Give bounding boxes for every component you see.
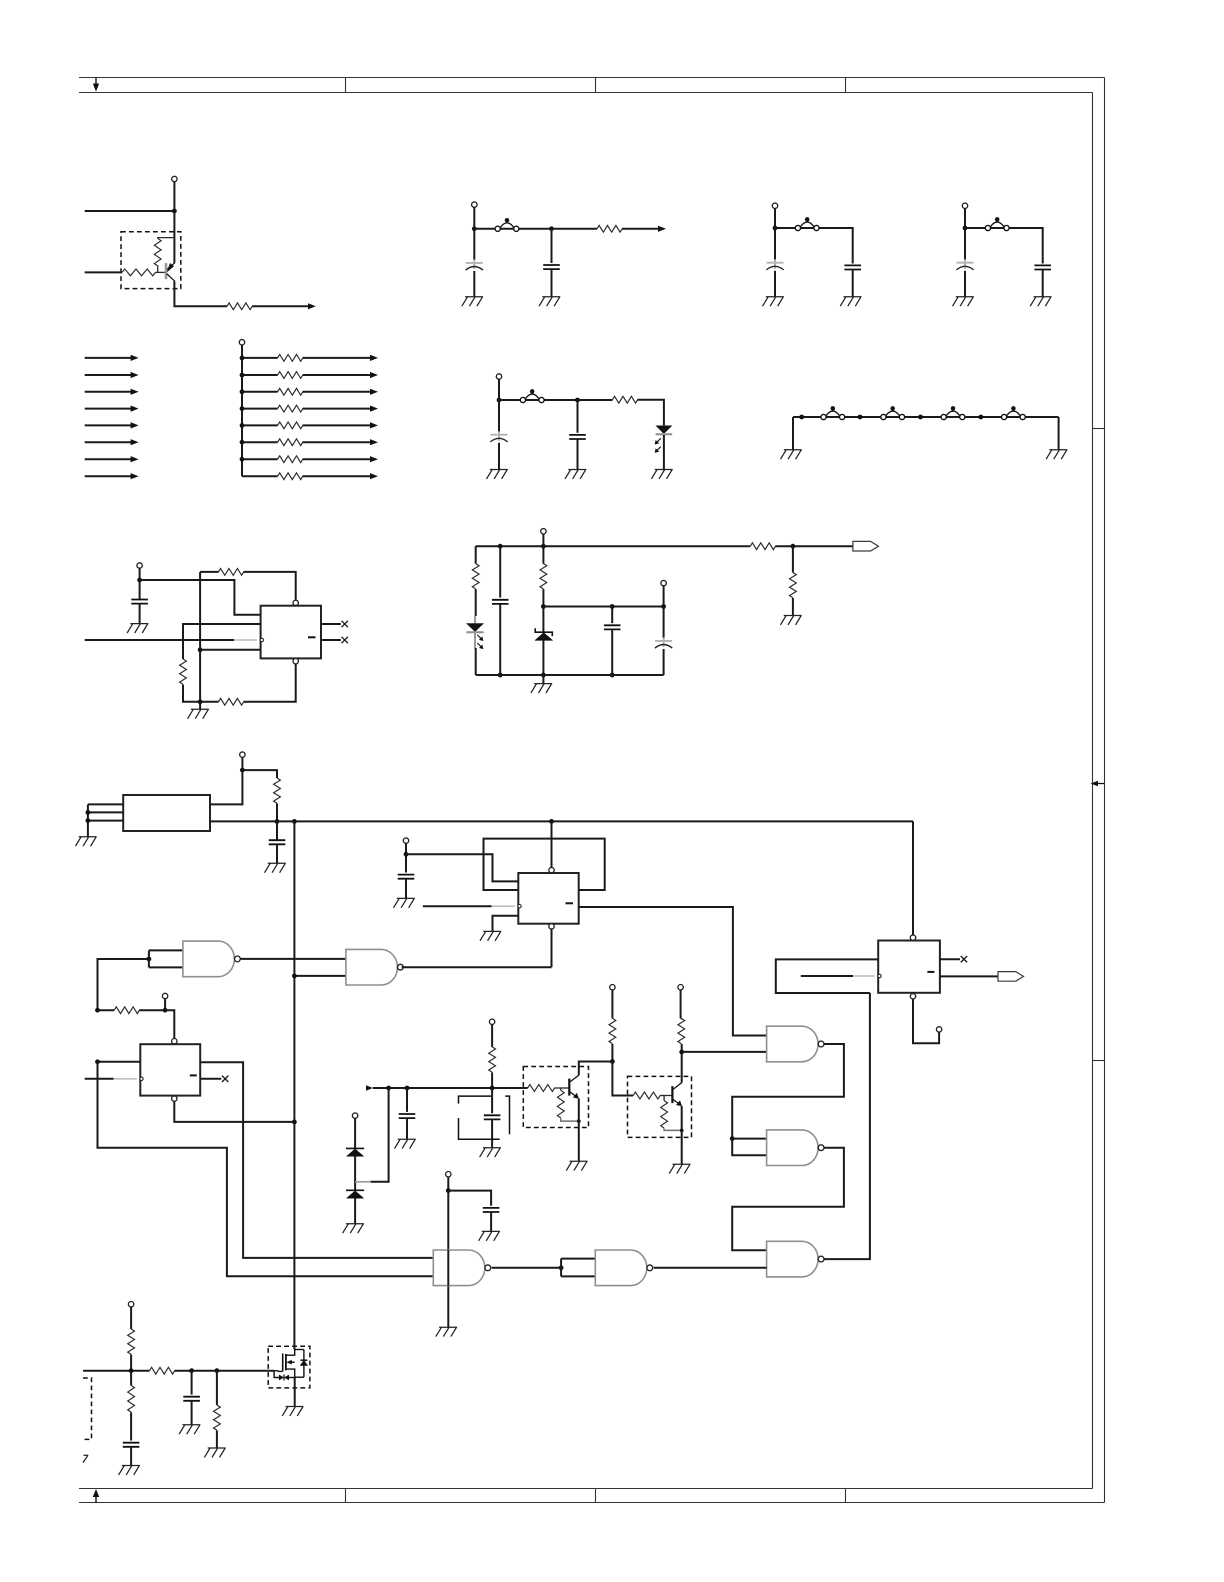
ground Q2 emitter bbox=[566, 1161, 587, 1170]
NAND A2 output wire to IC2 bottom bbox=[402, 966, 552, 968]
LED branch: resistor wire from rail bbox=[475, 546, 477, 563]
wire feedback top to IC1 top pin bbox=[244, 572, 296, 600]
supply rail through gate G1 bbox=[447, 1191, 449, 1327]
IC2 top pin wire to clock rail bbox=[551, 821, 553, 867]
fan tap 5 bbox=[240, 423, 245, 428]
node dot clock pullup bbox=[275, 819, 280, 824]
filter1 electrolytic cap wire bbox=[473, 229, 475, 260]
IC3 left pin1 wire bbox=[98, 1061, 141, 1063]
fan tap 7 bbox=[240, 457, 245, 462]
IC4 pin2 floating input wire bbox=[801, 975, 853, 977]
filter1 wire resistor to arrow bbox=[622, 228, 659, 230]
node dot bottom rail zener bbox=[541, 673, 546, 678]
IC4 minus mark bbox=[927, 971, 934, 973]
NAND gate G2 (bottom pair right) bbox=[595, 1250, 652, 1286]
LED D2 (triangle + bar) bbox=[466, 616, 483, 649]
resistor MOSFET pull-down bbox=[128, 1385, 135, 1412]
Q3 collector wire up bbox=[681, 1052, 683, 1083]
LED D1 emission arrows bbox=[655, 438, 661, 453]
resistor zener branch bbox=[540, 564, 547, 589]
transistor Q2 emitter diagonal with arrow bbox=[570, 1092, 576, 1097]
filter2 node dot bbox=[773, 226, 778, 231]
IC2 bias terminal bbox=[403, 838, 408, 843]
Q2 pull-up wire bbox=[611, 990, 613, 1019]
IC1 right pin2 wire bbox=[321, 639, 341, 641]
node dot zener top bbox=[541, 604, 546, 609]
resistor IC1 left divider bbox=[180, 659, 187, 684]
filter2 wire across and corner down bbox=[775, 228, 853, 264]
LED D1 cathode wire to ground bbox=[663, 435, 665, 469]
filter3 wire across and corner down bbox=[965, 228, 1043, 264]
filter3 ferrite bead bbox=[985, 217, 1009, 230]
filter3 node dot bbox=[963, 226, 968, 231]
filter1 node dot bbox=[472, 226, 477, 231]
wire left input to node bbox=[85, 210, 175, 212]
node dot clock branch MOSFET rail bbox=[292, 819, 297, 824]
NAND A1 output wire bbox=[240, 958, 346, 960]
zener branch: resistor wire bbox=[542, 546, 544, 563]
border tick bottom 2 bbox=[595, 1489, 597, 1503]
resonator bracket left-top bbox=[459, 1096, 492, 1104]
node dot rail IC3 top bbox=[95, 1008, 100, 1013]
node dot at transistor supply bbox=[172, 209, 177, 214]
IC1 left pin3 wire bbox=[200, 649, 261, 651]
pull-down branch below bbox=[130, 1371, 132, 1386]
IC2 minus mark bbox=[566, 902, 574, 904]
dashed box transistor Q2 bbox=[523, 1067, 588, 1128]
IC2 bottom pin circle bbox=[549, 924, 554, 929]
ground zener bbox=[531, 684, 552, 693]
ferrite bead chain 1 bbox=[821, 406, 845, 419]
filter1 output arrowhead bbox=[658, 226, 666, 232]
bead chain node dot 1 bbox=[799, 415, 804, 420]
ferrite bead chain 2 bbox=[881, 406, 905, 419]
IC1 pin2 input bubble bbox=[260, 638, 263, 641]
MOSFET M1 gate entry wire bbox=[274, 1370, 283, 1373]
osc load cap wire bbox=[276, 821, 278, 840]
output ecap wire to bottom rail bbox=[663, 649, 665, 675]
BORDER_SECTION bbox=[79, 78, 1105, 1503]
Q3 emitter wire to ground bbox=[681, 1106, 683, 1164]
capacitor electrolytic LED filter bbox=[490, 431, 507, 442]
wire resistor to output arrow bbox=[252, 305, 310, 307]
IC1 left vertical rail bbox=[199, 572, 201, 709]
no-connect X IC4 right pin1 bbox=[961, 956, 967, 962]
wire node down to transistor emitter bbox=[173, 211, 175, 263]
LED filter wire terminal down bbox=[498, 379, 500, 400]
IC3 pull-up terminal bbox=[162, 993, 167, 998]
resistor IC1 feedback bottom bbox=[219, 698, 244, 705]
node dot Q3 collector bbox=[679, 1050, 684, 1055]
capacitor IC1 decoupling bbox=[131, 600, 148, 604]
wire node right and down to resistor bbox=[242, 770, 277, 778]
zener diode Z1 bbox=[535, 607, 553, 676]
IC3 pin2 input bubble bbox=[140, 1077, 143, 1080]
no-connect X IC3 right pin2 bbox=[222, 1076, 228, 1082]
filter1 ecap to ground wire bbox=[473, 271, 475, 297]
input arrow 6 bbox=[85, 441, 132, 443]
NAND gate B (right column middle) bbox=[767, 1130, 824, 1166]
ground oscillator bbox=[75, 837, 96, 846]
filter3: terminal bbox=[962, 203, 967, 208]
wire left input to base resistor bbox=[85, 271, 122, 273]
wire resistor to divider rail bbox=[491, 1072, 493, 1088]
LED filter cap ground wire bbox=[577, 439, 579, 469]
bus of 8 input arrows bbox=[85, 355, 139, 480]
resistor IC1 feedback top bbox=[219, 569, 244, 576]
capacitor ceramic filter1 bbox=[543, 265, 560, 269]
wire fan bus vertical bbox=[241, 345, 243, 476]
IC4 top pin wire to clock rail bbox=[912, 821, 914, 935]
capacitor ceramic filter2 bbox=[844, 265, 861, 269]
osc cap ground wire bbox=[276, 844, 278, 863]
border arrow right-middle (left) bbox=[1091, 781, 1105, 787]
filter1 wire terminal down bbox=[473, 207, 475, 229]
bead chain node dot 4 bbox=[978, 415, 983, 420]
resistor IC3 pull-up bbox=[114, 1007, 139, 1014]
IC3 top pin circle bbox=[172, 1039, 177, 1044]
filter1 ferrite bead bbox=[495, 218, 519, 231]
resistor MOSFET pull-up bbox=[128, 1329, 135, 1354]
resistor gate series bbox=[150, 1367, 175, 1374]
IC1 left pin2 long input wire bbox=[85, 639, 234, 641]
capacitor regulator input bbox=[492, 600, 509, 604]
gate C output wire up to IC4 loop bbox=[824, 993, 870, 1259]
IC4 pin2 input bubble bbox=[878, 974, 881, 977]
IC2 bias cap wire bbox=[405, 854, 407, 872]
output terminal wire down bbox=[663, 586, 665, 607]
LED D1 (triangle + bar) bbox=[656, 426, 673, 437]
resistor osc pull-up bbox=[274, 778, 281, 803]
ground divider cap bbox=[395, 1139, 416, 1148]
bottom NAND supply terminal bbox=[446, 1172, 451, 1177]
IC3 bottom pin circle bbox=[172, 1096, 177, 1101]
input arrow 8 bbox=[85, 475, 132, 477]
terminal (top-left transistor supply) bbox=[172, 176, 177, 181]
fan tap 2 bbox=[240, 373, 245, 378]
wire divider bottom to rail bbox=[183, 685, 200, 702]
IC4 top pin circle bbox=[910, 935, 915, 940]
ground gate bleed bbox=[204, 1448, 225, 1457]
oscillator output long rail bbox=[210, 820, 913, 822]
NAND gate G1 (bottom pair left) bbox=[433, 1250, 490, 1286]
wire rail to resistor bbox=[98, 1009, 115, 1011]
node dot bottom rail output cap bbox=[610, 673, 615, 678]
IC1 supply terminal bbox=[137, 563, 142, 568]
bead chain node dot 2 bbox=[858, 415, 863, 420]
transistor Q2 collector diagonal bbox=[570, 1075, 579, 1082]
input arrow 5 bbox=[85, 424, 132, 426]
IC2 pin3 gray segment bbox=[492, 905, 515, 907]
divider input arrowhead bbox=[366, 1085, 373, 1090]
wire pull-up to collector node bbox=[681, 1044, 683, 1052]
ground sense bbox=[780, 616, 801, 625]
node dot output rail cap bbox=[610, 604, 615, 609]
node dot rail IC3 pin1 bbox=[95, 1059, 100, 1064]
IC4 right pin2 wire to flag bbox=[940, 975, 998, 977]
dashed box transistor Q3 bbox=[628, 1076, 692, 1137]
capacitor electrolytic filter3 bbox=[956, 259, 973, 270]
node dot osc pin2 bbox=[86, 810, 91, 815]
bleed resistor wire bbox=[216, 1371, 218, 1405]
border tick bottom 1 bbox=[345, 1489, 347, 1503]
output electrolytic wire bbox=[663, 607, 665, 639]
IC1 pin2 gray segment bbox=[234, 639, 257, 641]
IC3 left pin2 long input wire bbox=[85, 1078, 114, 1080]
IC2 pin3 input wire bbox=[423, 905, 492, 907]
node dot gate rail pull-up bbox=[129, 1368, 134, 1373]
gate B output wire loop to gate C bbox=[732, 1148, 844, 1251]
filter2 ferrite bead bbox=[795, 217, 819, 230]
IC1 supply wire down bbox=[139, 568, 141, 580]
LED filter: terminal bbox=[496, 374, 501, 379]
LED filter wire resistor to LED corner bbox=[638, 400, 664, 426]
signal flag output 2 bbox=[998, 972, 1024, 982]
supply wire down bbox=[447, 1177, 449, 1191]
border top inner line bbox=[79, 92, 1093, 94]
clamp diode D4 lower bbox=[346, 1190, 364, 1223]
filter3 wire terminal down bbox=[964, 209, 966, 229]
resistor Q2 base bbox=[528, 1085, 555, 1092]
capacitor bottom NAND decoupling bbox=[483, 1208, 500, 1212]
IC2 top pin circle bbox=[549, 867, 554, 872]
diode branch wire down-left bbox=[370, 1088, 389, 1182]
resistor sense pulldown bbox=[790, 573, 797, 598]
capacitor ceramic filter3 bbox=[1034, 265, 1051, 269]
node dot G1 output tie bbox=[559, 1265, 564, 1270]
clamp diode D3 upper bbox=[346, 1116, 364, 1191]
capacitor gate filter bbox=[183, 1397, 200, 1401]
IC2 bottom pin wire down bbox=[551, 929, 553, 967]
ground osc cap bbox=[265, 863, 286, 872]
sense resistor ground wire bbox=[792, 598, 794, 615]
wire base resistor to bar bbox=[660, 1095, 672, 1097]
no-connect X IC1 right pin2 bbox=[342, 637, 348, 643]
transistor Q3 emitter diagonal with arrow bbox=[673, 1099, 679, 1104]
IC1 supply node dot bbox=[137, 578, 142, 583]
IC2 feedback loop wire bbox=[484, 839, 605, 890]
LED filter node2 dot bbox=[575, 398, 580, 403]
NAND gate A1 bbox=[183, 941, 240, 977]
IC1 left pin1 wire bbox=[183, 624, 261, 659]
node dot sense branch bbox=[791, 544, 796, 549]
ground filter3 left bbox=[953, 297, 974, 306]
MOSFET M1 drain top wire bbox=[294, 1349, 304, 1351]
NAND gate C (right column bottom) bbox=[767, 1241, 824, 1277]
regulator block: top rail wire bbox=[476, 545, 751, 547]
resistor Q3 base-emitter bbox=[663, 1096, 665, 1101]
decoupling cap ground stem bbox=[490, 1212, 492, 1231]
ground gate cap bbox=[179, 1425, 200, 1434]
input arrow 7 bbox=[85, 458, 132, 460]
wire resistor to flag bbox=[775, 545, 853, 547]
wire series resistor to MOSFET bbox=[175, 1370, 275, 1372]
wire terminal down to node bbox=[173, 182, 175, 211]
oscillator left pin1 wire bbox=[88, 803, 123, 805]
wire pull-down to cap bbox=[130, 1412, 132, 1440]
node dot bottom rail cap bbox=[498, 673, 503, 678]
transistor Q2 base bar bbox=[568, 1079, 570, 1096]
clamp diodes terminal bbox=[352, 1113, 357, 1118]
node dot rail cap branch bbox=[498, 544, 503, 549]
filter1 node2 dot bbox=[549, 226, 554, 231]
long vertical rail x294 to MOSFET bbox=[293, 821, 295, 1349]
gate B upper input wire bbox=[732, 1138, 766, 1140]
G2 output wire to gate C input bbox=[654, 1267, 767, 1269]
LED filter ceramic wire bbox=[577, 400, 579, 433]
bleed resistor ground stem bbox=[216, 1431, 218, 1448]
output cap wire to bottom rail bbox=[611, 629, 613, 675]
oscillator top pin wire right-up bbox=[210, 770, 242, 804]
node dot Q2 emitter bbox=[577, 1119, 581, 1123]
ground filter2 right bbox=[840, 297, 861, 306]
node dot rail pin3 bbox=[198, 647, 203, 652]
ground filter3 right bbox=[1030, 297, 1051, 306]
supply rail visible through gate G1 bbox=[447, 1250, 449, 1286]
Q2 collector pull-up terminal bbox=[610, 985, 615, 990]
bead chain horizontal wire bbox=[793, 416, 1059, 418]
input arrow 4 bbox=[85, 408, 132, 410]
MOSFET M1 channel bar bbox=[285, 1354, 287, 1370]
oscillator left pin3 wire bbox=[88, 820, 123, 822]
IC3 right pin1 wire to bottom NAND bbox=[200, 1062, 433, 1258]
Q3 collector pull-up terminal bbox=[678, 985, 683, 990]
wire base resistor to bar bbox=[554, 1087, 569, 1089]
border tick top 2 bbox=[595, 78, 597, 93]
IC4 bottom pin wire to enable terminal bbox=[913, 999, 939, 1043]
MOSFET M1 gate bar bbox=[282, 1354, 284, 1372]
wire terminal to node bbox=[241, 757, 243, 770]
IC3 minus mark bbox=[190, 1074, 197, 1076]
border tick bottom 3 bbox=[845, 1489, 847, 1503]
oscillator left pin2 wire bbox=[88, 811, 123, 813]
partial ground mark at page edge bbox=[83, 1455, 88, 1462]
IC4 right pin1 wire bbox=[940, 958, 960, 960]
IC1 bottom pin wire down-left bbox=[244, 664, 296, 702]
output terminal bbox=[661, 580, 666, 585]
ground clamp diodes bbox=[343, 1224, 364, 1233]
input arrow 1 bbox=[85, 357, 132, 359]
ground IC2 bias cap bbox=[394, 898, 415, 907]
MOSFET M1 source-bulk bottom wire bbox=[295, 1376, 304, 1378]
ferrite bead chain 4 bbox=[1002, 406, 1026, 419]
ground LED filter mid bbox=[565, 470, 586, 479]
resistor Q3 collector pull-up bbox=[678, 1018, 685, 1043]
ground pull-down branch bbox=[119, 1466, 140, 1475]
border bottom inner line bbox=[79, 1488, 1093, 1490]
MOSFET M1 body diode bbox=[300, 1350, 307, 1378]
IC3 box bbox=[140, 1044, 200, 1095]
left rail down and across bbox=[98, 1062, 434, 1276]
divider cap wire bbox=[406, 1088, 408, 1112]
bead chain: left vertical wire bbox=[792, 417, 794, 450]
bead chain right vertical wire bbox=[1058, 417, 1060, 450]
input arrow 2 bbox=[85, 374, 132, 376]
resistor gate bleed bbox=[214, 1405, 221, 1430]
IC4 enable terminal bbox=[936, 1027, 941, 1032]
border arrow bottom-left (up) bbox=[93, 1489, 99, 1503]
capacitor resonator bbox=[484, 1115, 501, 1119]
resonator bracket right bbox=[505, 1096, 509, 1134]
MOSFET M1 drain stub bbox=[286, 1349, 295, 1356]
border right inner line bbox=[1092, 93, 1094, 1489]
IC1 top pin circle bbox=[293, 600, 298, 605]
filter3 electrolytic wire bbox=[964, 228, 966, 260]
wire Q2 b-e resistor to emitter bbox=[561, 1118, 579, 1121]
ground filter2 left bbox=[763, 297, 784, 306]
capacitor IC2 bias bbox=[398, 875, 415, 879]
IC3 pin2 gray segment bbox=[114, 1078, 137, 1080]
MOSFET M1 gate protection TVS bbox=[274, 1371, 295, 1381]
resonator bracket left-bottom bbox=[459, 1118, 500, 1139]
LED D2 emission arrows bbox=[477, 635, 483, 649]
IC4 pin1 loop wire bbox=[776, 959, 878, 993]
G1 output wire bbox=[492, 1267, 561, 1269]
MOSFET gate drive terminal bbox=[128, 1302, 133, 1307]
LED filter node dot bbox=[497, 398, 502, 403]
NAND A1 input wires bbox=[149, 950, 183, 967]
filter1 series resistor bbox=[597, 225, 622, 232]
filter1 wire node2 to resistor bbox=[552, 228, 598, 230]
IC3 bottom pin wire to MOSFET rail bbox=[174, 1101, 294, 1122]
output cap wire down bbox=[611, 607, 613, 624]
capacitor electrolytic filter2 bbox=[766, 259, 783, 270]
node dot gate bleed branch bbox=[215, 1368, 220, 1373]
gate cap ground stem bbox=[191, 1401, 193, 1425]
node dot gate B upper input branch bbox=[730, 1136, 735, 1141]
capacitor pull-down branch bbox=[123, 1443, 140, 1447]
IC4 box bbox=[878, 941, 940, 993]
transistor Q1 emitter diagonal with arrow bbox=[167, 263, 175, 270]
border tick top 3 bbox=[845, 78, 847, 93]
clamp node wire gray part bbox=[355, 1181, 371, 1183]
dashed box MOSFET M1 bbox=[268, 1346, 310, 1388]
node dot rail feedback bottom bbox=[198, 699, 203, 704]
bead chain node dot 3 bbox=[918, 415, 923, 420]
border arrow top-left (down) bbox=[93, 78, 99, 92]
LED filter ferrite bead bbox=[520, 389, 544, 402]
LED filter electrolytic wire bbox=[498, 400, 500, 432]
IC3 right pin2 wire bbox=[200, 1078, 221, 1080]
fan tap 8 bbox=[242, 475, 278, 477]
filter2 electrolytic wire bbox=[774, 228, 776, 260]
resistor Q1 output bbox=[227, 303, 252, 310]
ground filter1 right bbox=[539, 297, 560, 306]
ground LED filter right bbox=[651, 470, 672, 479]
transistor Q1 base bar (gray) bbox=[165, 263, 168, 279]
wire feedback bottom to rail bbox=[200, 701, 218, 703]
capacitor output ceramic bbox=[604, 625, 621, 629]
capacitor osc load bbox=[269, 840, 286, 844]
wire resistor to LED bbox=[475, 589, 477, 616]
capacitor ceramic LED filter bbox=[569, 435, 586, 439]
gate cap wire bbox=[191, 1371, 193, 1395]
border tick right 1 bbox=[1093, 428, 1105, 430]
NAND A2 lower input wire bbox=[294, 975, 346, 977]
resistor Q3 base bbox=[633, 1092, 660, 1099]
terminal wire to resistor bbox=[130, 1307, 132, 1329]
node dot output terminal bbox=[661, 604, 666, 609]
capacitor electrolytic filter1 bbox=[466, 260, 483, 271]
node dot resonator rail bbox=[490, 1086, 495, 1091]
divider cap ground stem bbox=[406, 1118, 408, 1139]
filter2: terminal bbox=[772, 203, 777, 208]
ferrite bead chain 3 bbox=[941, 406, 965, 419]
wire base-emitter resistor bottom to base bbox=[157, 266, 159, 273]
resistor Q2 collector pull-up bbox=[609, 1018, 616, 1043]
NAND gate A (right column top) bbox=[767, 1026, 824, 1062]
fan tap 3 bbox=[240, 389, 245, 394]
